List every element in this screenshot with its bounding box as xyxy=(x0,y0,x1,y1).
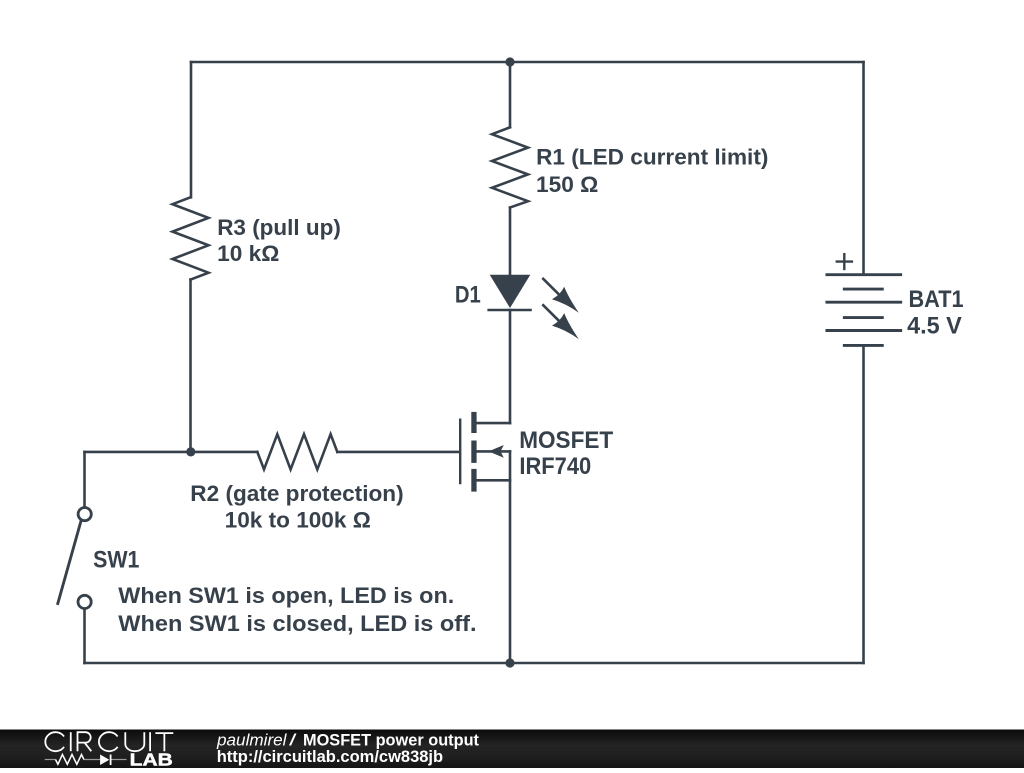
svg-text:150 Ω: 150 Ω xyxy=(536,172,598,197)
svg-text:R3 (pull up): R3 (pull up) xyxy=(217,215,341,240)
svg-text:10k to 100k Ω: 10k to 100k Ω xyxy=(225,508,371,533)
svg-text:When SW1 is open, LED is on.: When SW1 is open, LED is on. xyxy=(118,583,454,608)
svg-text:When SW1 is closed, LED is off: When SW1 is closed, LED is off. xyxy=(118,611,476,636)
svg-text:paulmirel: paulmirel xyxy=(216,731,288,749)
svg-text:http://circuitlab.com/cw838jb: http://circuitlab.com/cw838jb xyxy=(217,748,443,766)
svg-text:R1 (LED current limit): R1 (LED current limit) xyxy=(536,145,768,170)
svg-text:D1: D1 xyxy=(455,282,481,309)
svg-text:MOSFET power output: MOSFET power output xyxy=(303,731,479,749)
svg-text:4.5 V: 4.5 V xyxy=(907,313,962,340)
svg-text:/: / xyxy=(289,731,297,749)
svg-text:10 kΩ: 10 kΩ xyxy=(217,241,279,266)
svg-text:SW1: SW1 xyxy=(93,547,139,574)
svg-text:BAT1: BAT1 xyxy=(909,286,964,313)
svg-text:IRF740: IRF740 xyxy=(519,453,591,480)
svg-text:MOSFET: MOSFET xyxy=(519,427,613,454)
svg-text:LAB: LAB xyxy=(130,750,173,769)
svg-text:R2 (gate protection): R2 (gate protection) xyxy=(190,481,403,506)
